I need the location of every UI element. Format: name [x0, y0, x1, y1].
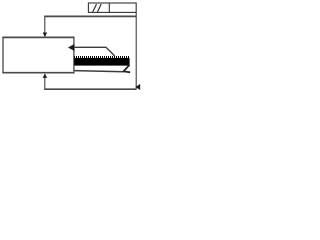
arrowhead up at bottom surface	[43, 73, 47, 78]
wedge top edge	[75, 47, 115, 56]
bottom leader line	[44, 88, 136, 90]
line under bar	[75, 71, 124, 72]
feature control frame divider	[108, 3, 110, 12]
arrowhead pointing left at right surface	[68, 44, 75, 51]
serrated bar body	[74, 58, 129, 66]
serrated bar teeth	[74, 56, 129, 58]
arrowhead at bottom right corner	[135, 84, 140, 90]
bevel at right end of bar	[124, 65, 131, 72]
feature control frame box	[88, 3, 136, 12]
parallelism symbol //	[93, 4, 102, 12]
leader line from frame to top surface	[44, 15, 136, 17]
right vertical leader	[135, 13, 137, 90]
arrowhead down at top surface	[43, 33, 47, 38]
part rectangle	[2, 36, 74, 38]
